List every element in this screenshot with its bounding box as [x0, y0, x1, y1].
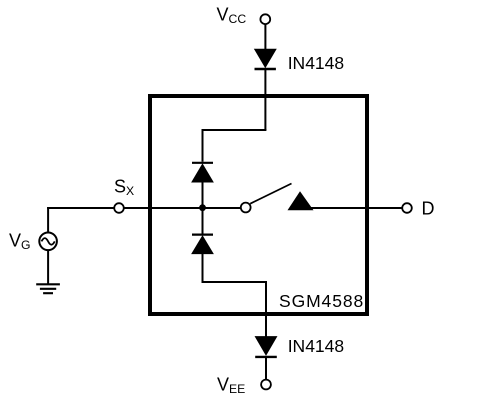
wire D2 to VEE	[265, 358, 267, 380]
IC body U1 SGM4588	[150, 96, 367, 314]
wire SX into box to switch pole	[124, 207, 241, 209]
wire node to D4	[202, 208, 204, 234]
node junction on Sx line	[199, 204, 206, 211]
wire D1 into box	[264, 70, 266, 130]
switch SW pole contact	[241, 203, 251, 213]
wire L-corner to internal clamp branch	[203, 130, 267, 162]
terminal VEE	[261, 380, 271, 390]
terminal D	[402, 203, 412, 213]
source VG (AC)	[39, 233, 57, 251]
ground	[36, 284, 60, 293]
wire VG up to Sx line	[47, 207, 49, 232]
svg-text:SGM4588: SGM4588	[279, 291, 364, 311]
svg-text:IN4148: IN4148	[288, 336, 344, 356]
wire VCC to D1	[264, 24, 266, 50]
diode D4 internal clamp (cathode up)	[192, 235, 213, 254]
diode D1 IN4148 (cathode down)	[255, 49, 276, 69]
wire D3 to node	[202, 182, 204, 208]
switch SW lever (open)	[250, 184, 291, 204]
svg-text:IN4148: IN4148	[288, 53, 344, 73]
diode D3 internal clamp (cathode up)	[192, 163, 213, 182]
terminal VCC	[260, 14, 270, 24]
wire VG down to ground	[47, 250, 49, 284]
diode D2 IN4148 (cathode down)	[255, 337, 277, 357]
wire D4 down and right to box bottom	[203, 254, 267, 338]
wire switch to D terminal	[308, 207, 402, 209]
terminal SX	[114, 203, 124, 213]
svg-text:D: D	[422, 199, 435, 219]
switch SW throw contact (arrow)	[288, 191, 314, 210]
wire VG to SX terminal	[47, 207, 114, 209]
